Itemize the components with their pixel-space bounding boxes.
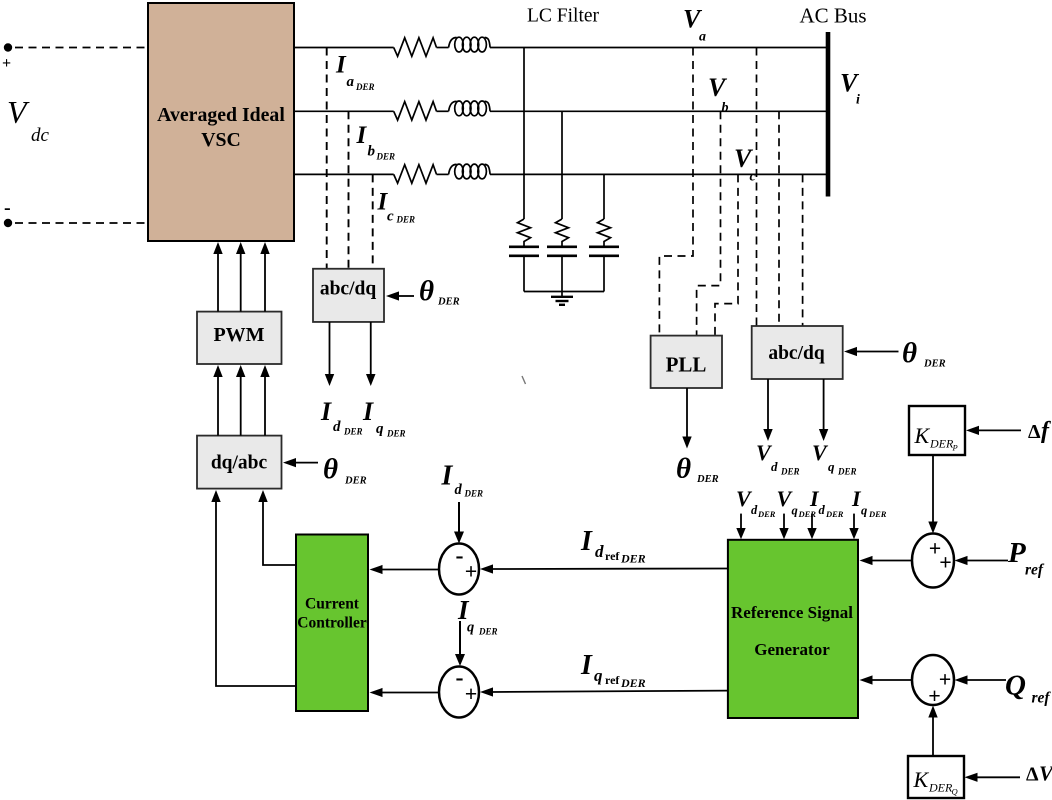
wire current tap Ia (dashed) <box>326 48 328 269</box>
svg-text:i: i <box>856 93 860 108</box>
wire RSG input Id_DER <box>807 514 816 540</box>
svg-text:DER: DER <box>464 489 484 499</box>
svg-text:-: - <box>456 665 464 691</box>
summer d-axis <box>439 543 479 595</box>
label Ic_DER <box>377 189 416 225</box>
svg-text:P: P <box>1007 537 1026 569</box>
svg-text:V: V <box>1039 762 1052 786</box>
svg-text:c: c <box>387 209 394 225</box>
svg-text:+: + <box>939 550 952 575</box>
wire Idref into summer d <box>480 564 728 573</box>
svg-text:DER: DER <box>696 474 719 485</box>
svg-text:ref: ref <box>605 673 620 687</box>
svg-text:K: K <box>914 423 931 448</box>
svg-text:-: - <box>4 197 11 219</box>
svg-text:DER: DER <box>437 297 460 308</box>
label Ia_DER <box>335 52 375 93</box>
block Reference Signal Generator <box>728 540 858 718</box>
label Vd_DER (abc/dq output) <box>756 440 800 477</box>
block PWM <box>197 312 282 364</box>
block Current Controller <box>296 535 368 712</box>
wire RSG input Iq_DER <box>849 514 858 540</box>
label delta-f <box>1028 418 1051 444</box>
svg-text:Q: Q <box>952 787 958 797</box>
block dq/abc <box>197 436 282 489</box>
capacitor shunt B <box>547 247 577 256</box>
svg-text:AC Bus: AC Bus <box>799 4 866 28</box>
svg-text:a: a <box>699 30 706 45</box>
resistor shunt C <box>598 219 611 247</box>
wire PLL output theta <box>682 388 691 449</box>
svg-text:DER: DER <box>868 509 887 519</box>
wire abc/dq output Vd_DER <box>763 379 772 441</box>
wire PWM to VSC a <box>213 242 222 312</box>
svg-text:f: f <box>1041 418 1051 444</box>
label Va <box>683 5 706 45</box>
wire Id_DER into summer d <box>454 502 464 544</box>
label Iq_DER (abc/dq output) <box>362 397 406 439</box>
svg-text:I: I <box>580 526 593 557</box>
wire phase B <box>294 110 826 112</box>
svg-text:I: I <box>441 461 454 492</box>
label Iq_DER (summer input) <box>457 595 498 637</box>
label Id_DER (summer input) <box>441 461 484 499</box>
svg-text:DER: DER <box>780 467 800 477</box>
wire PWM to VSC c <box>260 242 269 312</box>
svg-text:d: d <box>455 482 463 498</box>
wire Current Controller output q to dq/abc <box>211 490 296 686</box>
wire DC negative (dashed) <box>15 222 148 224</box>
svg-text:ref: ref <box>1025 562 1045 579</box>
resistor shunt A <box>518 219 531 247</box>
resistor phase A <box>394 38 437 57</box>
svg-text:I: I <box>320 397 332 426</box>
wire dq/abc to PWM b <box>236 365 245 436</box>
svg-text:DER: DER <box>757 509 776 519</box>
wire dq/abc to PWM a <box>213 365 222 436</box>
svg-text:Q: Q <box>1005 670 1026 702</box>
wire Iqref into summer q <box>480 687 728 696</box>
svg-text:DER: DER <box>620 552 646 566</box>
wire shunt common bottom <box>524 291 604 293</box>
wire abc/dq output Vq_DER <box>819 379 828 441</box>
label Vq_DER (RSG input) <box>777 486 817 519</box>
resistor shunt B <box>556 219 569 247</box>
node DC positive terminal <box>2 43 12 72</box>
svg-text:Generator: Generator <box>754 640 830 659</box>
svg-text:DER: DER <box>478 627 498 637</box>
wire dq/abc to PWM c <box>260 365 269 436</box>
svg-text:q: q <box>792 504 798 518</box>
summer P <box>912 534 954 588</box>
wire delta-f into K_DER_P <box>966 426 1021 435</box>
svg-text:PWM: PWM <box>213 324 264 346</box>
wire current tap Ib (dashed) <box>348 111 350 268</box>
svg-text:V: V <box>708 73 728 102</box>
label Vd_DER (RSG input) <box>736 486 776 519</box>
inductor phase C <box>449 164 491 179</box>
svg-text:+: + <box>2 55 11 72</box>
wire Current Controller output d to dq/abc <box>258 490 296 565</box>
label Iqref_DER <box>580 650 646 690</box>
svg-text:DER: DER <box>825 509 844 519</box>
wire voltage tap Vc to PLL (dashed) <box>715 174 738 335</box>
svg-text:Averaged Ideal: Averaged Ideal <box>157 104 285 126</box>
svg-text:LC Filter: LC Filter <box>527 6 600 27</box>
resistor phase C <box>394 165 437 184</box>
wire abc/dq output Iq_DER <box>366 322 376 386</box>
svg-text:DER: DER <box>355 82 375 92</box>
label Vdc <box>7 94 50 146</box>
wire current tap Ic (dashed) <box>372 174 374 268</box>
wire voltage tap Vb to PLL (dashed) <box>697 111 721 335</box>
wire phase A <box>294 47 826 49</box>
svg-text:K: K <box>913 767 930 792</box>
resistor phase B <box>394 102 437 121</box>
svg-text:I: I <box>335 52 347 79</box>
svg-text:DER: DER <box>837 467 857 477</box>
label Id_DER (RSG input) <box>809 486 844 519</box>
block abc/dq (voltage) <box>752 326 843 379</box>
block abc/dq (current) <box>313 269 384 322</box>
label theta_DER (dq/abc) <box>323 453 367 487</box>
wire PWM to VSC b <box>236 242 245 312</box>
wire delta-V into K_DER_Q <box>965 773 1021 782</box>
label Ib_DER <box>356 122 396 162</box>
label Vi <box>840 69 860 108</box>
label Qref <box>1005 670 1051 707</box>
label Pref <box>1007 537 1045 579</box>
block PLL <box>651 336 722 388</box>
svg-text:Δ: Δ <box>1028 421 1041 443</box>
summer q-axis <box>439 665 479 718</box>
wire voltage tap Va to PLL (dashed) <box>659 48 693 336</box>
label Iq_DER (RSG input) <box>851 486 887 519</box>
svg-text:d: d <box>819 503 826 517</box>
wire P summer to RSG <box>860 556 913 565</box>
svg-text:abc/dq: abc/dq <box>320 279 377 300</box>
svg-text:V: V <box>7 94 30 130</box>
svg-text:q: q <box>594 666 603 685</box>
wire Iq_DER into summer q <box>455 621 465 666</box>
AC bus bar <box>826 32 831 197</box>
inductor phase A <box>449 37 491 52</box>
svg-text:d: d <box>595 542 604 561</box>
wire shunt A to common <box>523 256 525 292</box>
svg-text:ref: ref <box>1032 690 1052 707</box>
svg-text:q: q <box>467 620 474 636</box>
wire theta_DER into abc/dq (voltage) <box>844 347 899 356</box>
svg-text:DER: DER <box>344 476 367 487</box>
svg-text:Controller: Controller <box>297 615 367 632</box>
label theta_DER (PLL output) <box>676 453 719 486</box>
wire Q summer to RSG <box>860 675 913 684</box>
label Idref_DER <box>580 526 646 566</box>
label Id_DER (abc/dq output) <box>320 397 363 437</box>
summer Q <box>912 655 954 708</box>
svg-text:Reference Signal: Reference Signal <box>731 603 853 622</box>
wire K_DER_Q to Q summer <box>928 706 937 757</box>
wire phase C <box>294 173 826 175</box>
gain block K_DER_Q <box>908 756 964 798</box>
wire RSG input Vq_DER <box>779 514 788 540</box>
wire shunt branch A vertical <box>523 48 525 220</box>
svg-text:DER: DER <box>928 781 953 795</box>
svg-text:+: + <box>465 681 478 706</box>
svg-text:DER: DER <box>923 359 946 370</box>
wire summer q to Current Controller <box>370 688 440 697</box>
svg-text:+: + <box>465 559 478 584</box>
capacitor shunt A <box>509 247 539 256</box>
wire theta_DER into abc/dq (current) <box>386 291 414 300</box>
svg-text:DER: DER <box>376 152 396 162</box>
wire DC positive (dashed) <box>15 47 148 49</box>
svg-text:DER: DER <box>386 429 406 439</box>
svg-text:abc/dq: abc/dq <box>768 343 825 364</box>
svg-text:c: c <box>750 170 757 185</box>
svg-text:PLL: PLL <box>666 353 707 377</box>
svg-text:θ: θ <box>902 337 917 369</box>
wire summer d to Current Controller <box>370 565 440 574</box>
svg-text:dq/abc: dq/abc <box>211 453 268 474</box>
node DC negative terminal <box>4 197 12 227</box>
label Vq_DER (abc/dq output) <box>812 440 857 477</box>
svg-text:DER: DER <box>620 676 646 690</box>
svg-text:b: b <box>722 101 729 116</box>
wire shunt branch C vertical <box>603 174 605 219</box>
svg-text:I: I <box>580 650 593 681</box>
wire voltage tap phase A to abc/dq (dashed) <box>756 48 758 327</box>
wire RSG input Vd_DER <box>736 514 745 540</box>
svg-text:Δ: Δ <box>1026 764 1039 786</box>
svg-text:q: q <box>861 504 867 518</box>
wire shunt B to ground <box>561 256 563 297</box>
wire K_DER_P to P summer <box>928 455 937 534</box>
capacitor shunt C <box>589 247 619 256</box>
svg-text:Current: Current <box>305 596 360 613</box>
wire voltage tap phase C to abc/dq (dashed) <box>802 174 804 326</box>
svg-text:P: P <box>952 443 958 453</box>
svg-text:θ: θ <box>419 275 434 307</box>
svg-text:dc: dc <box>31 125 50 146</box>
wire abc/dq output Id_DER <box>325 322 334 386</box>
label Vb <box>708 73 729 116</box>
svg-text:DER: DER <box>396 215 416 225</box>
svg-text:q: q <box>376 421 384 437</box>
wire Pref into summer <box>955 556 1009 565</box>
label theta_DER (abc/dq voltage) <box>902 337 946 370</box>
svg-text:-: - <box>456 543 464 569</box>
stray mark <box>522 376 526 384</box>
svg-text:DER: DER <box>343 427 363 437</box>
wire theta_DER into dq/abc <box>283 458 318 467</box>
label delta-V <box>1026 762 1052 786</box>
svg-text:d: d <box>333 419 341 435</box>
svg-text:DER: DER <box>929 437 954 451</box>
svg-text:ref: ref <box>605 549 620 563</box>
svg-text:VSC: VSC <box>201 129 241 151</box>
converter VSC (Averaged Ideal VSC) <box>148 3 294 241</box>
svg-text:q: q <box>828 459 835 474</box>
wire voltage tap phase B to abc/dq (dashed) <box>778 111 780 326</box>
svg-text:θ: θ <box>323 453 338 485</box>
wire Qref into summer <box>955 675 1007 684</box>
ground <box>551 297 573 305</box>
inductor phase B <box>449 101 491 116</box>
svg-text:I: I <box>362 397 374 426</box>
label Vc <box>734 144 757 185</box>
svg-text:V: V <box>812 440 829 465</box>
svg-text:d: d <box>751 503 758 517</box>
wire shunt branch B vertical <box>561 111 563 219</box>
svg-text:d: d <box>771 459 778 474</box>
wire shunt C to common <box>603 256 605 292</box>
svg-text:a: a <box>347 74 355 90</box>
svg-text:θ: θ <box>676 453 691 485</box>
gain block K_DER_P <box>909 406 965 455</box>
svg-text:I: I <box>356 122 368 149</box>
svg-text:+: + <box>928 683 941 708</box>
label theta_DER (abc/dq current) <box>419 275 460 308</box>
svg-text:b: b <box>368 144 376 160</box>
